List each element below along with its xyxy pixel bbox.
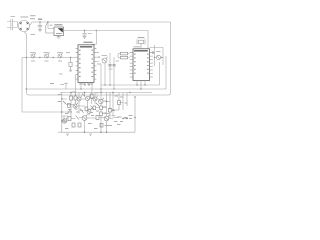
pin ticks IC1 right xyxy=(94,48,96,79)
node junction C2 xyxy=(84,30,85,31)
wire IC1 bottom pins xyxy=(81,82,92,92)
capacitor C2 xyxy=(82,31,86,39)
resistor R15 xyxy=(109,109,112,113)
wire bus A xyxy=(101,62,160,85)
wire left outer xyxy=(22,58,70,113)
transistor T13 xyxy=(62,118,67,124)
label cluster texts xyxy=(58,92,128,129)
resistor R8 xyxy=(74,96,77,100)
wire cluster horizontals xyxy=(62,98,128,121)
label S1 xyxy=(50,24,53,26)
node junction R22 xyxy=(70,57,71,58)
resistor R21 xyxy=(100,124,103,128)
diode D8 xyxy=(68,109,71,113)
node junctions right xyxy=(154,57,162,58)
label R3 xyxy=(58,60,62,62)
transformer TR1 secondary bar xyxy=(16,22,18,28)
transistor T2 xyxy=(45,52,50,58)
wire mid vertical 2 xyxy=(104,63,106,85)
ground marks bottom xyxy=(66,134,92,135)
diode D2 xyxy=(63,101,66,104)
label R2 xyxy=(45,60,49,62)
node junctions input row xyxy=(26,57,54,58)
label D1 xyxy=(156,51,161,53)
diode D6 xyxy=(80,109,84,113)
resistor R5 xyxy=(118,52,130,55)
wire cluster verticals xyxy=(62,93,135,133)
node IC1 bottom junctions xyxy=(80,84,89,89)
label IC1 xyxy=(84,41,93,43)
wire IC2 Vcc drop xyxy=(147,31,149,49)
node cluster junctions xyxy=(61,92,136,133)
label C2 xyxy=(88,33,92,35)
label row end xyxy=(66,52,70,54)
wire cluster bottom bus xyxy=(58,131,135,133)
pin ticks IC1 left xyxy=(76,48,78,79)
switch S1 xyxy=(46,22,54,33)
node junction rectifier xyxy=(47,21,48,22)
wire mid vertical 3 xyxy=(109,53,111,85)
diode D3 xyxy=(82,94,85,97)
label B1 value xyxy=(31,34,36,36)
capacitor C3 above IC2 xyxy=(137,39,145,48)
wire IC1 pin8 down xyxy=(75,75,77,96)
label cluster right marks xyxy=(129,116,133,119)
wire top rail xyxy=(30,22,171,26)
diode D5 xyxy=(76,116,80,120)
resistor R12 xyxy=(93,106,96,110)
diode D4 xyxy=(96,103,99,106)
resistor R22 xyxy=(69,58,72,72)
label IC2 part number xyxy=(134,50,148,52)
node junction IC1 Vcc xyxy=(96,30,97,31)
transistor T9 xyxy=(73,103,78,108)
label near ground stub xyxy=(61,84,65,86)
wire mid vertical 4 xyxy=(113,57,115,89)
label gnd mark xyxy=(50,83,54,85)
label G1 xyxy=(55,24,63,26)
resistor R11 xyxy=(85,107,88,111)
node junctions mid xyxy=(98,56,114,89)
wire mid rail xyxy=(64,30,149,32)
wire right border xyxy=(27,22,171,95)
wire IC1 right pin stubs xyxy=(96,53,99,62)
label B1 type row1 xyxy=(30,15,36,17)
wire AC input lines xyxy=(7,22,17,28)
resistor R18 xyxy=(96,116,99,120)
ground under G1 xyxy=(57,36,61,39)
wire bridge negative down xyxy=(24,32,26,89)
node IC2 bottom junctions xyxy=(136,84,145,89)
resistor R7 xyxy=(70,96,73,100)
label R1 xyxy=(31,60,35,62)
wire mid vertical 1 xyxy=(100,64,102,93)
IC IC1 xyxy=(78,45,94,83)
wire bus C xyxy=(60,92,152,94)
transistor T4 xyxy=(102,57,108,63)
resistor R13 xyxy=(100,106,103,110)
resistor R9 xyxy=(90,94,93,98)
transformer TR1 xyxy=(11,19,13,30)
label B1 type row2 xyxy=(30,18,35,20)
label T3 xyxy=(57,52,62,54)
label IC1 part number xyxy=(80,46,92,48)
pin numbers IC1 xyxy=(79,50,93,78)
resistor R14 xyxy=(100,112,103,116)
label R22 xyxy=(59,73,63,75)
transistor T11 xyxy=(82,114,87,120)
transistor T1 xyxy=(31,52,36,58)
transistor T6 xyxy=(86,95,91,100)
label T4 xyxy=(102,54,108,56)
resistor R20 xyxy=(78,123,81,127)
wire IC2 bottom pins xyxy=(137,81,145,90)
transistor T5 xyxy=(77,96,82,101)
capacitor C5 xyxy=(112,65,116,67)
capacitor C1 xyxy=(38,22,42,32)
wire rectifier inputs xyxy=(48,22,54,29)
label C3 xyxy=(138,37,145,39)
wire IC1 Vcc xyxy=(93,31,97,45)
wire R5 R6 left join xyxy=(117,54,119,58)
capacitor C4 xyxy=(108,65,112,67)
wire D1 out xyxy=(155,57,164,59)
pin ticks IC2 left xyxy=(130,53,133,77)
transistor T12 xyxy=(104,115,109,121)
IC IC2 xyxy=(133,49,150,81)
label C1 xyxy=(38,18,42,20)
pin ticks IC2 right xyxy=(150,53,153,77)
pin numbers IC2 xyxy=(134,54,149,74)
diode D7 xyxy=(91,106,94,110)
rectifier module G1 xyxy=(54,27,64,36)
label TR1 xyxy=(11,16,16,18)
label R4 xyxy=(97,63,101,65)
bridge rectifier B1 xyxy=(18,20,29,31)
transistor T7 xyxy=(93,96,98,101)
ground stub near bus B xyxy=(64,83,68,89)
wire input row xyxy=(22,57,76,59)
label T1 xyxy=(30,52,35,54)
label T2 xyxy=(44,52,49,54)
transistor T8 xyxy=(99,98,104,104)
resistor R17 xyxy=(68,117,71,121)
resistor R6 xyxy=(118,56,130,59)
label B1 xyxy=(21,16,29,18)
label C4 xyxy=(109,68,113,70)
resistor R10 xyxy=(68,104,71,108)
diode D1 xyxy=(156,55,160,59)
resistor R16 xyxy=(118,101,121,105)
node bus junctions xyxy=(26,84,131,93)
transistor T10 xyxy=(87,108,92,113)
wire bus B xyxy=(26,56,166,89)
label C5 xyxy=(116,60,120,62)
wire cluster top drop xyxy=(100,93,102,100)
label IC2 xyxy=(134,46,141,48)
wire IC2 right top link xyxy=(150,45,164,66)
transistor T3 xyxy=(58,52,63,58)
resistor R19 xyxy=(72,123,75,127)
label under IC1 xyxy=(79,83,93,85)
node junction at C1 xyxy=(39,21,40,22)
capacitor C6 at IC2 pin xyxy=(152,51,154,54)
